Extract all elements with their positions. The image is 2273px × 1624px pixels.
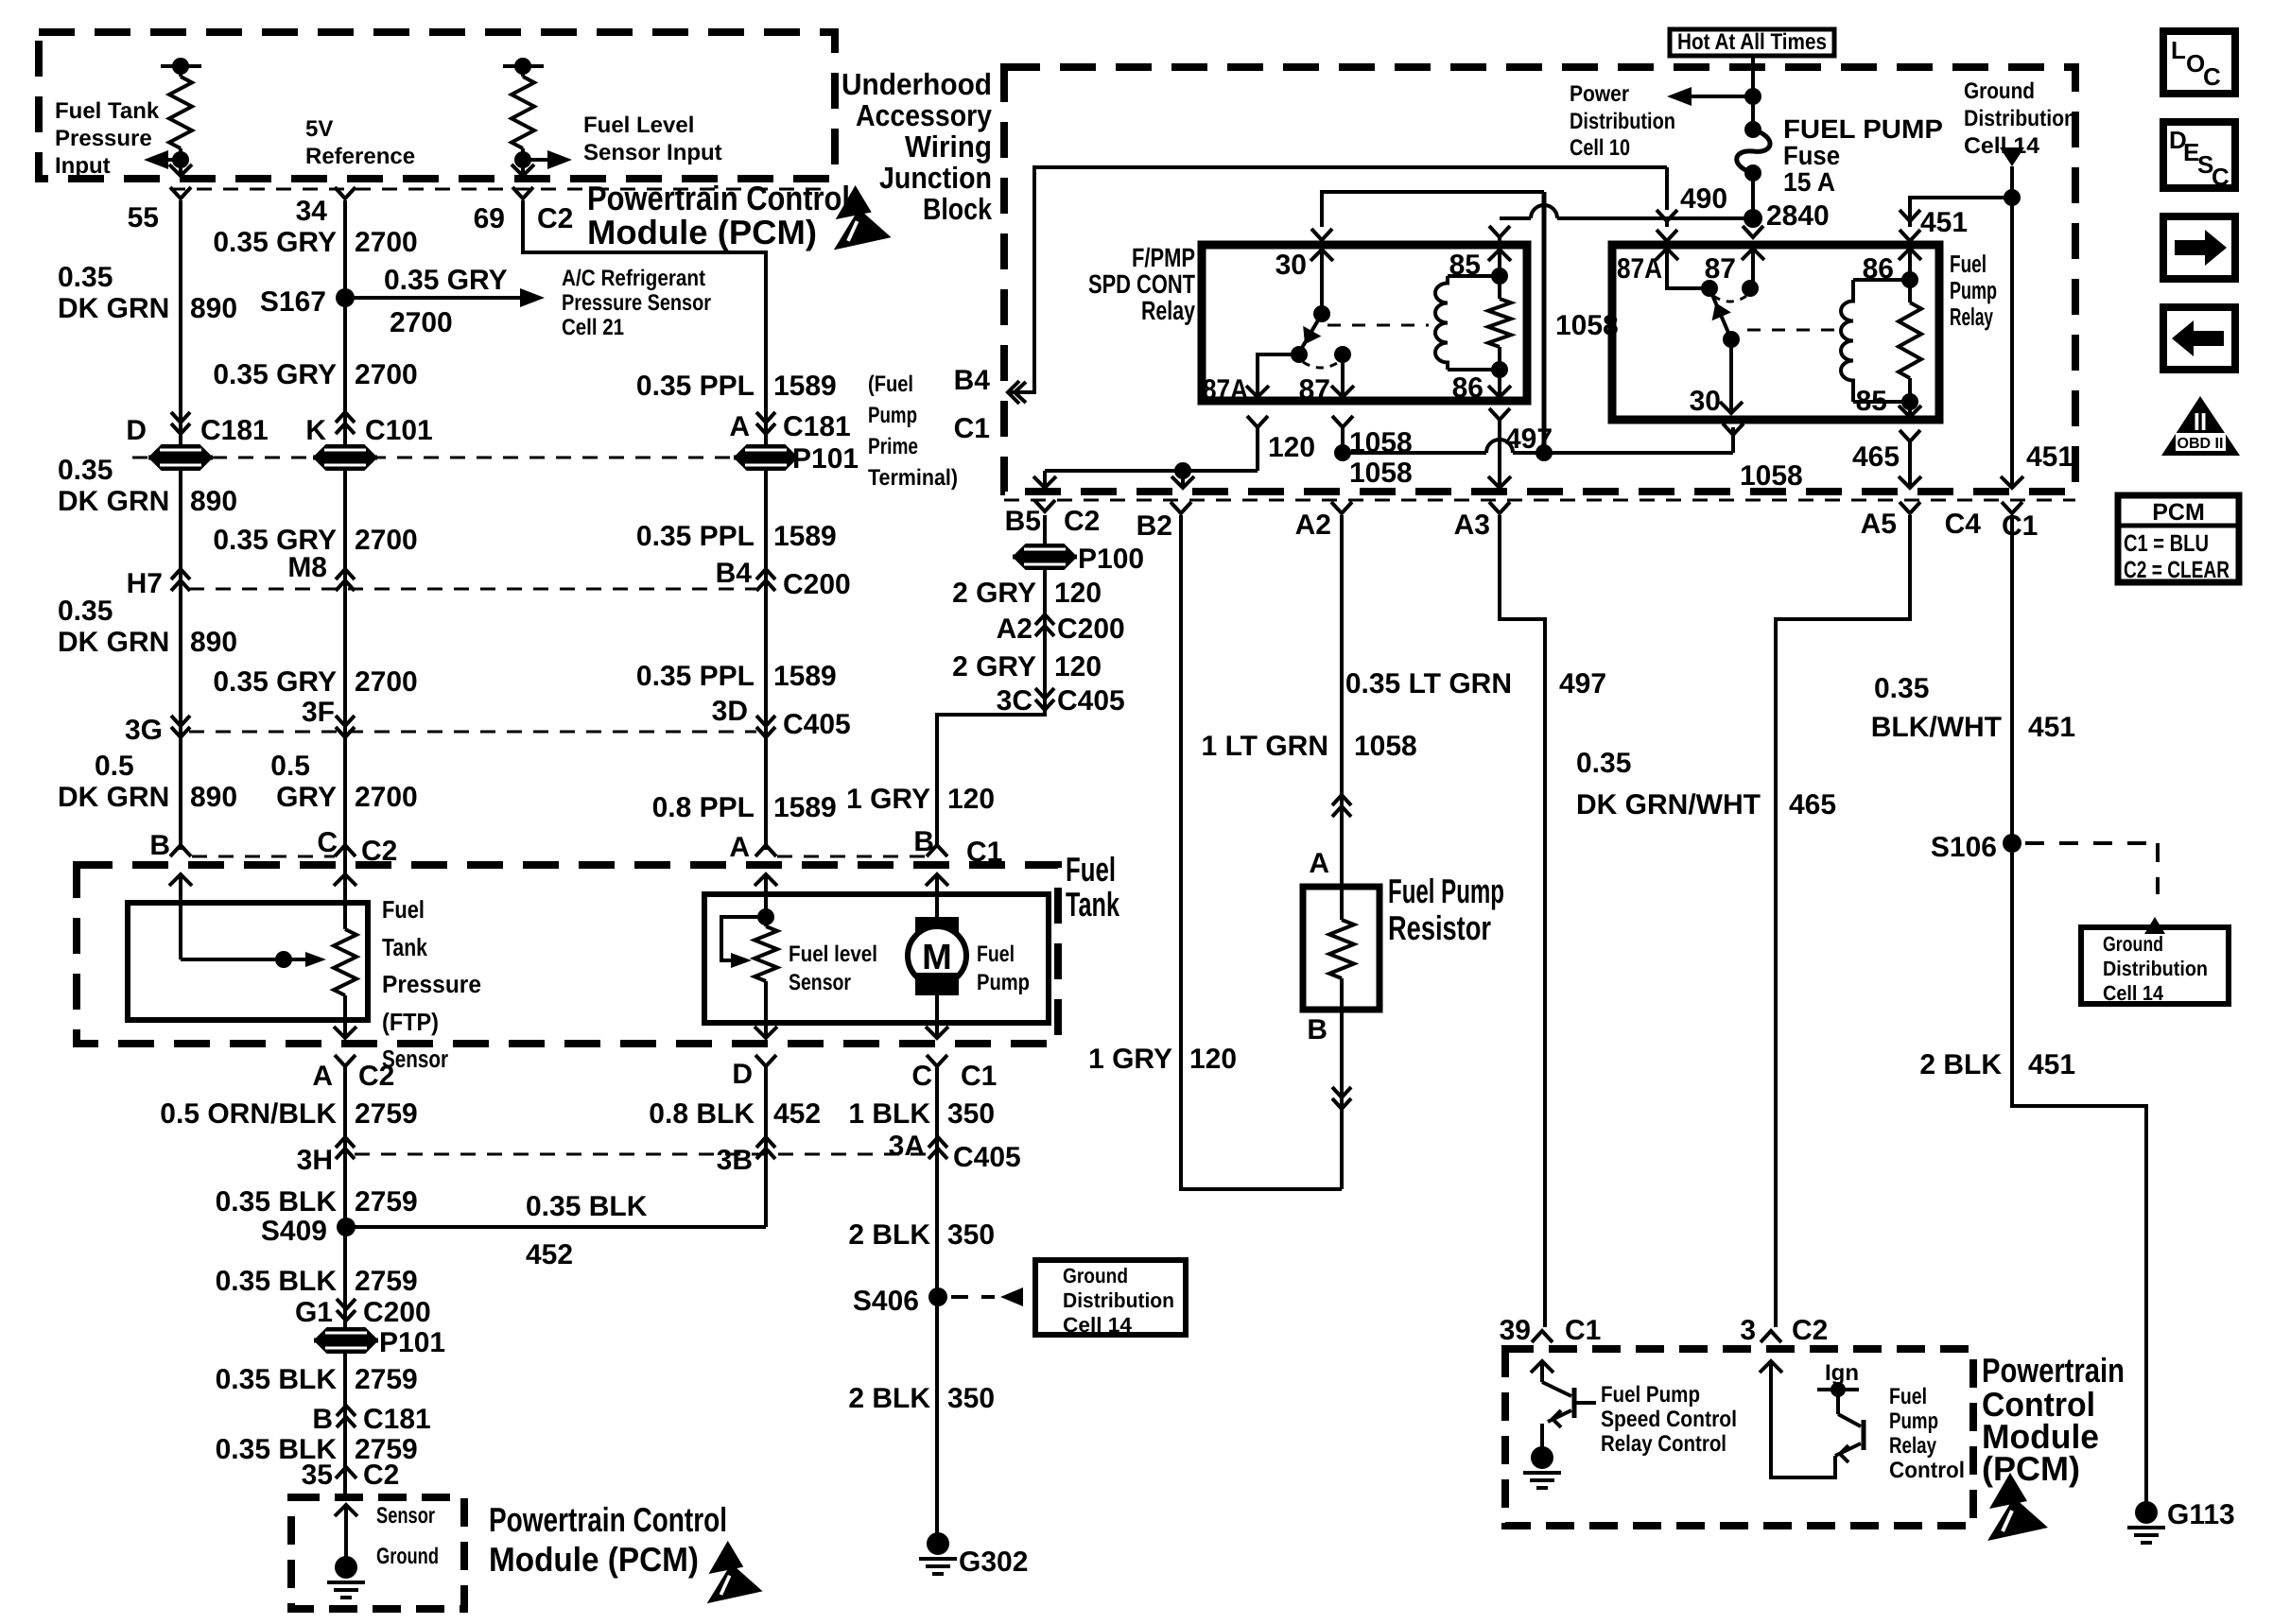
pin 35 C2 (PCM)	[302, 1460, 400, 1491]
FTP sensor resistor	[334, 874, 356, 1038]
pin B2	[1136, 502, 1191, 542]
transistor Q1 fuel pump speed control relay control	[1523, 1361, 1596, 1488]
wire: 350 BLK vertical to G302	[935, 1066, 939, 1536]
pin A C2 below tank	[312, 1055, 394, 1092]
svg-text:Input: Input	[55, 153, 111, 179]
arrow + node: fuel level tap	[512, 150, 572, 176]
label: Sensor Ground	[376, 1503, 439, 1569]
svg-text:Powertrain Control: Powertrain Control	[587, 179, 850, 217]
label: Underhood Accessory Wiring Junction Block	[842, 67, 992, 226]
junction block bottom interface dashed	[1004, 499, 2075, 502]
fuel tank dashed box	[77, 865, 1058, 1044]
svg-text:69: 69	[474, 203, 505, 234]
svg-text:C181: C181	[200, 415, 269, 446]
wire: fuel pump prime runner	[1008, 167, 1667, 404]
ESD warning symbol top	[834, 185, 892, 250]
title: Powertrain Control Module (PCM) bottom-right	[1982, 1351, 2125, 1488]
fuel pump resistor box	[1303, 887, 1379, 1010]
svg-text:1 GRY: 1 GRY	[1088, 1044, 1172, 1075]
svg-text:30: 30	[1275, 250, 1307, 281]
svg-text:F/PMP: F/PMP	[1132, 243, 1195, 272]
label: 0.5 GRY 2700 seg5	[270, 751, 417, 813]
svg-text:1589: 1589	[773, 371, 837, 402]
svg-text:30: 30	[1690, 386, 1721, 417]
svg-text:350: 350	[947, 1383, 995, 1414]
relay1 87A lead to 120 net	[1045, 416, 1315, 479]
svg-text:Pressure: Pressure	[55, 126, 152, 151]
svg-text:34: 34	[296, 196, 328, 227]
svg-text:C2 = CLEAR: C2 = CLEAR	[2124, 557, 2230, 583]
svg-text:Powertrain: Powertrain	[1982, 1351, 2125, 1390]
svg-text:1058: 1058	[1740, 460, 1803, 492]
PCM top connector dashed row	[170, 188, 823, 191]
svg-text:2700: 2700	[390, 307, 453, 338]
svg-text:0.35: 0.35	[58, 262, 113, 293]
svg-text:Pump: Pump	[1889, 1408, 1938, 1434]
svg-text:3H: 3H	[297, 1145, 333, 1176]
label: 0.35 GRY 2700 seg4	[213, 666, 417, 698]
svg-text:C2: C2	[1792, 1315, 1828, 1346]
connector 3C C405 chevrons	[997, 685, 1125, 717]
svg-text:C181: C181	[783, 411, 851, 442]
wire: 1 GRY 120 (B2 to resistor B)	[1181, 515, 1342, 1189]
wire: 452 from pin D to S409 line	[764, 1066, 768, 1227]
wire: 451 runner to ground dist	[1900, 189, 2021, 238]
svg-text:C2: C2	[1064, 506, 1100, 537]
label: Fuel Pump Resistor	[1388, 872, 1504, 947]
svg-text:C200: C200	[783, 569, 851, 600]
label: 0.35 LT GRN 497	[1345, 668, 1606, 700]
wire: battery feed from hot box	[1744, 56, 1761, 130]
title: Powertrain Control Module (PCM) bottom-left	[489, 1500, 727, 1579]
resistor: Fuel Level Sensor Input pull-up	[503, 58, 544, 176]
svg-text:1589: 1589	[773, 521, 837, 552]
fuel pump motor	[908, 874, 966, 1038]
svg-text:C1: C1	[966, 837, 1002, 868]
wire: 451 BLK/WHT (C1 to G113)	[2012, 515, 2146, 1509]
svg-text:Fuel: Fuel	[1066, 850, 1116, 889]
splice S409	[261, 1216, 356, 1247]
svg-text:A: A	[729, 832, 750, 863]
label: 0.35 BLK 2759 seg2	[216, 1266, 418, 1297]
pin B fuel tank	[149, 830, 191, 861]
svg-text:Distribution: Distribution	[1063, 1288, 1174, 1312]
relay1 coil resistor	[1488, 238, 1511, 378]
dashed link S106 to ground distribution	[2025, 843, 2165, 934]
svg-text:G1: G1	[295, 1297, 333, 1328]
svg-text:0.35 PPL: 0.35 PPL	[636, 661, 755, 692]
dashed row fuel tank pins	[192, 855, 925, 858]
svg-text:C101: C101	[365, 415, 433, 446]
label: 0.35 BLK 2759 seg4	[216, 1434, 418, 1465]
label: 0.35 BLK 2759 seg3	[216, 1364, 418, 1395]
svg-text:86: 86	[1452, 372, 1484, 404]
relay2 pin 85	[1856, 386, 1921, 417]
wire: 120 B5 to fuel pump	[937, 515, 1045, 848]
label: 1 BLK 350	[848, 1098, 995, 1130]
svg-text:120: 120	[1189, 1044, 1237, 1075]
relay1 pin 86	[1452, 370, 1511, 404]
svg-text:S106: S106	[1931, 832, 1997, 863]
svg-text:C2: C2	[363, 1460, 399, 1491]
label: 2 BLK 350 seg1	[848, 1219, 995, 1251]
svg-text:452: 452	[773, 1098, 821, 1130]
svg-text:0.35 GRY: 0.35 GRY	[384, 265, 508, 296]
wire: 890 DK GRN vertical (pin 55 to fuel tank B)	[179, 200, 182, 850]
splice S106	[1931, 832, 2021, 863]
svg-text:1589: 1589	[773, 792, 837, 823]
svg-text:87A: 87A	[1617, 253, 1662, 285]
wire: 2700 GRY vertical (pin 34 down)	[343, 200, 347, 926]
wire: 1058 thick drop (runner B to runner D)	[1542, 192, 1547, 453]
pin A3	[1454, 502, 1510, 541]
label: Fuel Pump (tank)	[977, 942, 1030, 995]
svg-text:497: 497	[1505, 423, 1553, 455]
relay2 85 lead 465	[1852, 430, 1921, 488]
svg-text:Tank: Tank	[382, 933, 427, 961]
label: A/C Refrigerant Pressure Sensor Cell 21	[562, 266, 711, 340]
label: 2 BLK 350 seg2	[848, 1383, 995, 1414]
pin A5	[1861, 502, 1920, 540]
pin B5 C2	[1005, 500, 1101, 537]
svg-text:465: 465	[1852, 441, 1900, 473]
label: 2 BLK 451	[1919, 1049, 2075, 1080]
svg-text:A: A	[729, 411, 750, 442]
svg-text:Relay: Relay	[1141, 296, 1195, 325]
svg-text:Relay Control: Relay Control	[1601, 1431, 1726, 1457]
svg-text:P101: P101	[379, 1327, 445, 1358]
pin C4 C1 right	[1945, 502, 2039, 542]
svg-text:K: K	[305, 415, 326, 446]
pin B4 C1 (prime terminal)	[954, 365, 1026, 444]
svg-text:0.5: 0.5	[270, 751, 310, 782]
relay1 86 lead 497	[1488, 408, 1553, 488]
svg-text:890: 890	[190, 782, 237, 813]
relay2 pin 86	[1863, 230, 1921, 285]
svg-text:Relay: Relay	[1889, 1433, 1937, 1459]
FTP sensor box	[128, 903, 368, 1020]
svg-text:SPD CONT: SPD CONT	[1088, 269, 1195, 299]
relay2 pin 87A	[1617, 218, 1718, 297]
svg-text:0.35: 0.35	[1874, 673, 1929, 704]
svg-text:Fuel level: Fuel level	[789, 942, 877, 967]
label: 5V Reference	[305, 116, 415, 169]
wire: 490 drop to junction	[1657, 167, 1727, 221]
label: Fuel Tank Pressure (FTP) Sensor	[382, 895, 481, 1073]
svg-text:A3: A3	[1454, 510, 1490, 541]
connector K C101 chevrons	[305, 412, 432, 446]
svg-text:Ground: Ground	[1063, 1264, 1128, 1287]
label: Fuel Pump Relay	[1950, 250, 1997, 331]
svg-text:35: 35	[302, 1460, 333, 1491]
wire: B5 drop	[1033, 471, 1056, 488]
connector P101 symbol lower	[314, 1327, 445, 1358]
connector B C181 chevrons lower	[312, 1404, 430, 1435]
svg-text:C200: C200	[363, 1297, 431, 1328]
svg-text:2 BLK: 2 BLK	[848, 1219, 930, 1251]
svg-text:2 GRY: 2 GRY	[952, 651, 1036, 682]
label: 0.35 DK GRN/WHT 465	[1576, 748, 1836, 821]
label: 0.35 BLK 2759 seg1	[216, 1186, 418, 1218]
svg-text:497: 497	[1559, 668, 1606, 700]
svg-text:C: C	[2203, 62, 2221, 91]
relay1 pin 85	[1449, 226, 1511, 281]
label: Ground Distribution Cell 14 (top)	[1964, 78, 2076, 159]
svg-text:55: 55	[128, 202, 159, 233]
svg-text:1058: 1058	[1349, 458, 1413, 489]
label: 0.35 GRY 2700 seg3	[213, 525, 417, 556]
label: 0.35 PPL 1589 seg2	[636, 521, 837, 552]
svg-text:C1: C1	[961, 1061, 997, 1092]
dashed row C405 lower	[355, 1153, 927, 1156]
underhood accessory wiring junction block dashed box	[1004, 67, 2075, 492]
svg-text:5V: 5V	[305, 116, 333, 142]
pin B C1 fuel pump	[913, 826, 1002, 868]
svg-text:2700: 2700	[355, 525, 418, 556]
relay U1 box (F/PMP SPD CONT)	[1202, 245, 1527, 401]
pin A2	[1295, 502, 1352, 541]
wire: FTP sensor internal B branch	[169, 874, 326, 968]
label: (Fuel Pump Prime Terminal)	[868, 371, 958, 491]
sensor ground wire + ground	[327, 1505, 365, 1598]
svg-text:Junction: Junction	[879, 161, 992, 195]
svg-text:GRY: GRY	[276, 782, 337, 813]
svg-text:Speed Control: Speed Control	[1601, 1407, 1737, 1432]
svg-text:Cell 14: Cell 14	[2103, 981, 2164, 1005]
pin 39 C1 (PCM)	[1500, 1315, 1602, 1346]
svg-text:C405: C405	[953, 1142, 1021, 1173]
svg-text:C1: C1	[954, 413, 990, 444]
svg-text:(FTP): (FTP)	[382, 1008, 439, 1036]
svg-text:A: A	[312, 1061, 333, 1092]
relay1 switch blade	[1291, 314, 1322, 363]
label: Power Distribution Cell 10	[1570, 81, 1675, 161]
svg-text:A5: A5	[1861, 509, 1897, 540]
svg-text:86: 86	[1863, 253, 1894, 285]
svg-text:Pump: Pump	[1950, 276, 1997, 304]
fuel level sensor wiper	[721, 917, 766, 968]
svg-text:C1 = BLU: C1 = BLU	[2124, 530, 2209, 557]
svg-text:D: D	[126, 415, 147, 446]
arrow + node: FTP input tap	[144, 150, 192, 176]
svg-text:Distribution: Distribution	[1570, 109, 1675, 134]
svg-text:0.35 GRY: 0.35 GRY	[213, 666, 337, 698]
svg-text:Sensor: Sensor	[376, 1503, 435, 1529]
transistor Q2 fuel pump relay control	[1760, 1361, 1864, 1477]
pin D below tank	[732, 1055, 776, 1090]
svg-text:Distribution: Distribution	[1964, 106, 2076, 131]
svg-text:120: 120	[1268, 432, 1315, 463]
svg-text:1 GRY: 1 GRY	[846, 784, 930, 815]
svg-text:A: A	[1309, 848, 1329, 879]
svg-text:PCM: PCM	[2152, 499, 2205, 526]
svg-text:D: D	[732, 1059, 753, 1090]
relay1 linkage dashed	[1327, 324, 1429, 327]
connector M8 chevrons	[287, 552, 355, 591]
svg-text:Powertrain Control: Powertrain Control	[489, 1500, 727, 1539]
label: Fuel Pump Speed Control Relay Control	[1601, 1382, 1737, 1457]
svg-text:Wiring: Wiring	[905, 130, 992, 164]
svg-text:0.35: 0.35	[58, 455, 113, 486]
fuse FUEL PUMP 15A	[1737, 121, 1770, 218]
svg-text:890: 890	[190, 293, 237, 324]
label: 0.35 GRY 2700 seg2	[213, 359, 417, 390]
svg-text:DK GRN: DK GRN	[58, 627, 169, 658]
label: Fuel Level Sensor Input	[583, 112, 722, 165]
svg-text:Fuel Pump: Fuel Pump	[1388, 872, 1504, 910]
label: 1 GRY 120 (B2)	[1088, 1044, 1237, 1075]
svg-text:120: 120	[1054, 651, 1102, 682]
label: 0.5 ORN/BLK 2759	[160, 1098, 417, 1130]
svg-text:451: 451	[2028, 712, 2075, 743]
arrow from ground distribution	[2000, 147, 2024, 488]
svg-text:(PCM): (PCM)	[1982, 1449, 2080, 1488]
PCM top dashed box (Powertrain Control Module boundary)	[39, 32, 835, 179]
fuel level sensor + pump inner box	[704, 894, 1049, 1023]
svg-text:0.8 BLK: 0.8 BLK	[649, 1098, 755, 1130]
svg-text:Pump: Pump	[868, 403, 917, 428]
wire: runner C node 2840 to relay1 pin85	[1500, 205, 1753, 218]
svg-text:350: 350	[947, 1098, 995, 1130]
svg-text:2759: 2759	[355, 1098, 418, 1130]
svg-text:2 GRY: 2 GRY	[952, 578, 1036, 609]
svg-text:Module (PCM): Module (PCM)	[587, 213, 817, 251]
svg-text:B: B	[312, 1404, 333, 1435]
svg-text:1 BLK: 1 BLK	[848, 1098, 930, 1130]
svg-text:Cell 14: Cell 14	[1964, 133, 2040, 159]
legend box DESC	[2163, 122, 2235, 191]
fuel pump resistor element	[1329, 887, 1354, 1010]
svg-text:P100: P100	[1078, 544, 1144, 575]
svg-text:120: 120	[1054, 578, 1102, 609]
wire: runner B pin30 feed	[1311, 192, 1544, 240]
relay2 coil resistor	[1899, 249, 1921, 410]
svg-text:Cell 21: Cell 21	[562, 315, 624, 340]
svg-text:Distribution: Distribution	[2103, 957, 2208, 980]
svg-text:0.35 LT GRN: 0.35 LT GRN	[1345, 668, 1512, 700]
svg-text:B4: B4	[716, 558, 753, 589]
svg-text:Fuel: Fuel	[977, 942, 1015, 967]
legend OBD II triangle	[2161, 396, 2240, 456]
svg-text:2700: 2700	[355, 359, 418, 390]
wire: 497 LT GRN (A3 to PCM 39 C1)	[1500, 515, 1545, 1327]
connector D C181 chevrons	[126, 412, 268, 446]
svg-text:Ground: Ground	[376, 1544, 439, 1569]
svg-text:3C: 3C	[997, 685, 1032, 717]
relay2 pin 30	[1690, 339, 1743, 417]
svg-text:C2: C2	[537, 203, 573, 234]
svg-text:Cell 10: Cell 10	[1570, 135, 1630, 161]
svg-text:87: 87	[1299, 374, 1330, 406]
wire: resistor B lead	[1332, 1010, 1351, 1189]
svg-text:Relay: Relay	[1950, 302, 1993, 331]
label: Fuel Tank Pressure Input	[55, 98, 160, 179]
svg-text:DK GRN/WHT: DK GRN/WHT	[1576, 789, 1761, 821]
svg-text:S167: S167	[260, 286, 326, 318]
fuel level sensor resistor	[755, 874, 777, 1038]
svg-text:S406: S406	[853, 1286, 919, 1317]
wire: 1 LT GRN 1058 (A2 to resistor A)	[1340, 515, 1344, 887]
svg-text:0.8 PPL: 0.8 PPL	[652, 792, 755, 823]
svg-text:3B: 3B	[717, 1145, 753, 1176]
label: 2 GRY 120 seg1	[952, 578, 1102, 609]
svg-text:Ground: Ground	[2103, 932, 2163, 956]
svg-text:Pressure Sensor: Pressure Sensor	[562, 290, 711, 316]
wire: 2759 vertical below tank	[343, 1066, 347, 1497]
svg-text:2840: 2840	[1766, 200, 1830, 232]
connector P101 symbol on wire3	[734, 443, 859, 475]
hot at all times box	[1670, 29, 1834, 56]
connector 3A C405 chevrons	[889, 1131, 1021, 1173]
svg-text:Terminal): Terminal)	[868, 465, 958, 491]
svg-text:Fuse: Fuse	[1783, 141, 1840, 170]
svg-text:0.35 GRY: 0.35 GRY	[213, 359, 337, 390]
svg-text:C: C	[2212, 163, 2230, 191]
svg-text:M: M	[922, 938, 952, 977]
svg-text:Block: Block	[923, 192, 992, 226]
label: 0.35 DK GRN 890 seg2	[58, 455, 237, 517]
svg-text:DK GRN: DK GRN	[58, 486, 169, 517]
ground G302	[919, 1532, 1028, 1578]
svg-text:1 LT GRN: 1 LT GRN	[1202, 731, 1328, 762]
svg-text:B2: B2	[1136, 510, 1172, 542]
connector 3H chevrons	[297, 1137, 355, 1176]
ground distribution cell 14 box (S106)	[2081, 927, 2229, 1005]
label: A (resistor)	[1309, 848, 1329, 879]
svg-text:Reference: Reference	[305, 144, 415, 169]
label: 0.35 BLK/WHT 451	[1871, 673, 2075, 743]
svg-text:451: 451	[1920, 207, 1968, 238]
svg-text:C1: C1	[1565, 1315, 1601, 1346]
svg-text:C200: C200	[1057, 613, 1125, 645]
wire: 452 jumper S409 to D wire	[346, 1225, 766, 1229]
pin 3 C2 (PCM)	[1740, 1315, 1828, 1346]
svg-text:B: B	[1307, 1014, 1327, 1045]
svg-text:Underhood: Underhood	[842, 67, 992, 101]
dashed row P101	[132, 457, 756, 459]
label: 0.35 GRY 2700 to A/C sensor	[384, 265, 508, 338]
runner D 1058 net	[1334, 427, 1733, 461]
splice S406	[853, 1286, 947, 1317]
svg-text:Sensor: Sensor	[789, 970, 851, 995]
svg-text:C4: C4	[1945, 509, 1982, 540]
label: 0.8 BLK 452	[649, 1098, 821, 1130]
ground distribution cell 14 box (S406)	[1035, 1260, 1186, 1337]
legend box LOC	[2163, 31, 2235, 94]
connector 3F chevrons	[302, 697, 355, 737]
label: 0.35 GRY 2700 seg1	[213, 227, 417, 258]
splice S167	[260, 286, 545, 318]
relay1 switch 87 contact	[1299, 346, 1354, 406]
svg-text:2700: 2700	[355, 227, 418, 258]
label: 1058 right of drop	[1555, 310, 1619, 341]
svg-text:C405: C405	[783, 709, 851, 740]
svg-text:DK GRN: DK GRN	[58, 782, 169, 813]
PCM sensor ground dashed box	[291, 1497, 464, 1609]
svg-text:Control: Control	[1889, 1458, 1965, 1483]
relay2 linkage dashed	[1747, 329, 1840, 332]
label: Ign	[1825, 1360, 1859, 1386]
svg-text:S409: S409	[261, 1216, 327, 1247]
svg-text:3F: 3F	[302, 697, 335, 728]
svg-text:Fuel Tank: Fuel Tank	[55, 98, 160, 124]
svg-text:C: C	[911, 1061, 932, 1092]
label: 0.8 PPL 1589 seg4	[652, 792, 837, 823]
svg-text:Fuel: Fuel	[1950, 250, 1987, 278]
svg-text:2700: 2700	[355, 782, 418, 813]
relay1 pin 30	[1275, 250, 1333, 322]
svg-text:3: 3	[1740, 1315, 1756, 1346]
